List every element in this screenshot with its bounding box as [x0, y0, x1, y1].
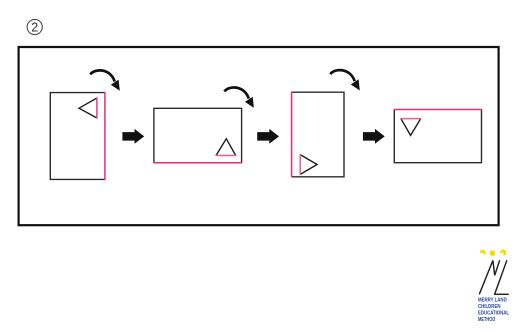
triangle in card 2 black edges — [216, 139, 236, 156]
triangle in card 3 black edges — [300, 155, 317, 175]
logo wordmark — [478, 297, 510, 323]
triangle in card 3 pink edge — [299, 154, 301, 175]
bold arrow 2 — [257, 129, 279, 144]
svg-text:CHILDREN: CHILDREN — [478, 304, 501, 310]
triangle in card 4 black edges — [401, 119, 421, 136]
card 3 pink left edge — [291, 92, 293, 178]
curved rotate arrow 2 — [224, 88, 254, 108]
card 2 black edges — [154, 108, 242, 162]
card 1 black edges — [50, 93, 105, 180]
logo ML monogram — [479, 260, 509, 294]
bold arrow 1 — [122, 129, 144, 144]
bold arrow 3 — [363, 129, 385, 144]
svg-text:MERRY LAND: MERRY LAND — [478, 297, 507, 303]
curved rotate arrow 3 — [330, 70, 360, 90]
outer frame — [19, 47, 499, 225]
svg-text:EDUCATIONAL: EDUCATIONAL — [478, 311, 510, 317]
svg-text:2: 2 — [31, 20, 38, 34]
card 2 pink bottom edge — [153, 162, 242, 164]
svg-text:METHOD: METHOD — [478, 317, 495, 323]
logo sun circle — [490, 250, 496, 256]
triangle in card 2 pink edge — [215, 155, 236, 157]
card 3 black edges — [292, 92, 344, 177]
triangle in card 1 black edges — [79, 98, 97, 118]
circled number 2 — [27, 19, 42, 34]
logo crescent moon — [480, 250, 486, 258]
curved rotate arrow 1 — [90, 70, 120, 90]
triangle in card 1 pink edge — [96, 98, 98, 119]
logo pac shape — [499, 250, 507, 257]
card 4 pink top edge — [394, 109, 483, 111]
card 4 black edges — [394, 110, 481, 163]
card 1 pink right edge — [104, 92, 106, 180]
triangle in card 4 pink edge — [400, 118, 421, 120]
